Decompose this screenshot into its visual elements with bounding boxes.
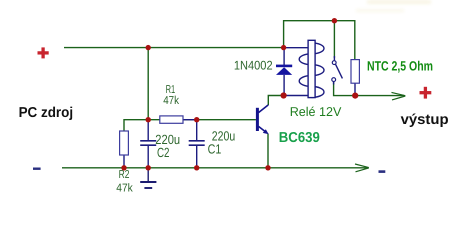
wire from top rail down to base rail	[147, 48, 149, 120]
svg-text:1N4002: 1N4002	[234, 58, 273, 72]
junction top rail at diode column	[281, 45, 286, 50]
output arrow head top	[392, 92, 406, 100]
plus terminal input	[38, 47, 49, 58]
junction base rail at C2	[146, 117, 151, 122]
thermistor NTC 2,5 Ohm	[351, 60, 359, 96]
wire switch feed	[333, 21, 335, 58]
plus terminal output	[420, 87, 432, 99]
junction output rail at NTC	[352, 93, 358, 99]
wire base rail	[124, 120, 256, 132]
svg-text:R2: R2	[119, 169, 130, 181]
transistor Q1 BC639	[256, 105, 269, 134]
relay K1 coil	[284, 40, 325, 97]
relay K1 contact	[332, 56, 343, 85]
svg-text:47k: 47k	[163, 95, 179, 107]
svg-text:NTC 2,5 Ohm: NTC 2,5 Ohm	[367, 58, 433, 73]
svg-text:výstup: výstup	[401, 112, 449, 128]
capacitor C2 220u	[140, 120, 156, 168]
wire top loop to NTC	[284, 21, 355, 60]
wire bottom negative rail	[62, 167, 369, 169]
resistor R2 47k	[120, 131, 129, 168]
svg-text:Relé 12V: Relé 12V	[290, 104, 342, 119]
wire output plus rail	[334, 82, 404, 96]
junction top rail at R1 column	[146, 45, 151, 50]
junction bottom rail at ground	[146, 165, 151, 170]
svg-text:47k: 47k	[116, 182, 133, 194]
capacitor C1 220u	[189, 120, 205, 168]
svg-text:BC639: BC639	[279, 130, 320, 146]
resistor R1 47k	[160, 116, 197, 123]
minus terminal input	[33, 168, 41, 170]
junction bottom rail at emitter	[265, 165, 270, 170]
minus terminal output	[379, 170, 386, 173]
junction bottom rail at C1	[194, 165, 199, 170]
svg-text:C1: C1	[208, 142, 222, 157]
junction bottom rail at R2	[121, 165, 126, 170]
junction base rail at C1	[194, 117, 199, 122]
output arrow head bottom	[355, 164, 369, 172]
wire collector jog	[268, 96, 283, 106]
wire emitter to bottom rail	[267, 134, 269, 168]
svg-text:C2: C2	[157, 145, 170, 160]
svg-text:PC zdroj: PC zdroj	[19, 105, 74, 121]
junction top loop at switch	[332, 18, 337, 23]
junction diode coil collector node	[281, 92, 287, 98]
ground	[140, 168, 156, 188]
wire top positive rail	[64, 47, 284, 49]
diode D1 1N4002	[276, 48, 292, 96]
